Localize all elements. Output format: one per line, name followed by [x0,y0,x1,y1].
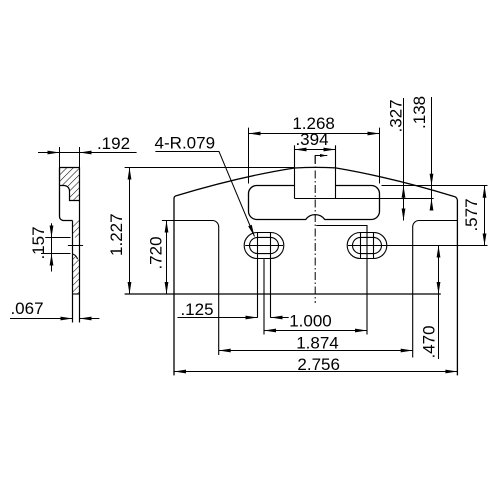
dim 1.227 line and arrows [125,168,295,295]
dim .327 line and arrows [402,98,406,221]
side view hatch web lower segment [73,254,80,294]
svg-text:.720: .720 [147,236,166,269]
side view slot gap lower arc [73,254,78,259]
tab bottom edge and its extension line [295,198,434,200]
svg-text:.577: .577 [462,198,481,231]
svg-text:.157: .157 [29,226,48,259]
recess top extension line to the right [382,185,488,187]
svg-text:1.000: 1.000 [289,312,332,331]
side view strip left edge (ext down for .067) [72,221,74,323]
svg-text:2.756: 2.756 [297,355,340,374]
side view section outline [60,168,80,221]
left slot horizontal center tick [245,245,283,247]
right slot bent extension from bump center [316,226,367,335]
svg-text:.192: .192 [97,134,130,153]
svg-text:.327: .327 [387,99,406,132]
side view hatch upper block [60,168,80,201]
left slot center extension line down to 1.000 dim [263,259,265,334]
svg-text:1.874: 1.874 [296,334,339,353]
svg-text:.394: .394 [295,130,328,149]
left slot hole inner obround [250,237,279,253]
left ledge edge with corner and left pocket edge (ext to 1.874 dim) [162,221,219,356]
svg-text:1.227: 1.227 [107,213,126,256]
side view right edge (ext down for .067) [79,168,81,323]
tab edges [295,145,336,198]
right slot horizontal center line extended right for .577 [348,245,488,247]
dim .720 line and arrows [165,221,169,295]
left slot hole outer counterbore [244,233,284,259]
right slot hole outer counterbore [347,233,387,259]
dim .577 line and arrows [483,186,487,246]
front view part outline [125,167,458,375]
dim .067 line and arrows [10,317,99,321]
recess groove outline [248,186,379,220]
dim 1.874 line and arrows [219,349,413,353]
center line of tab and bump (dash-dot) [314,156,316,303]
svg-text:.125: .125 [180,300,213,319]
dim 2.756 line and arrows [174,370,457,374]
side view bottom tick [73,293,80,295]
svg-text:.067: .067 [10,299,43,318]
right ledge edge with corner and right pocket edge (ext to 1.874 dim) [413,221,458,358]
side view hatch web upper segment [73,221,80,238]
dim .138 line and arrows [430,97,434,211]
svg-text:.138: .138 [410,96,429,129]
note 4-R.079 text with underline and leader [155,134,255,237]
side view center tick [68,245,83,247]
bent leader at tab top [315,156,327,164]
dim .125 line and arrows [178,316,289,320]
dim 1.268 line and arrows [249,128,380,184]
dim 1.000 line and arrows [264,329,367,333]
right slot hole inner obround [353,237,382,253]
left slot channel edges (.125 extension lines) [257,233,259,318]
dim .157 line and arrows [41,223,71,271]
svg-text:4-R.079: 4-R.079 [155,134,215,153]
svg-text:.470: .470 [420,325,439,358]
dim .192 line and arrows [38,147,137,168]
side view inner step edge [60,185,80,200]
dim .394 line and arrows [295,148,336,152]
right slot channel edges [360,233,362,259]
dim .470 line and arrows [437,246,441,360]
